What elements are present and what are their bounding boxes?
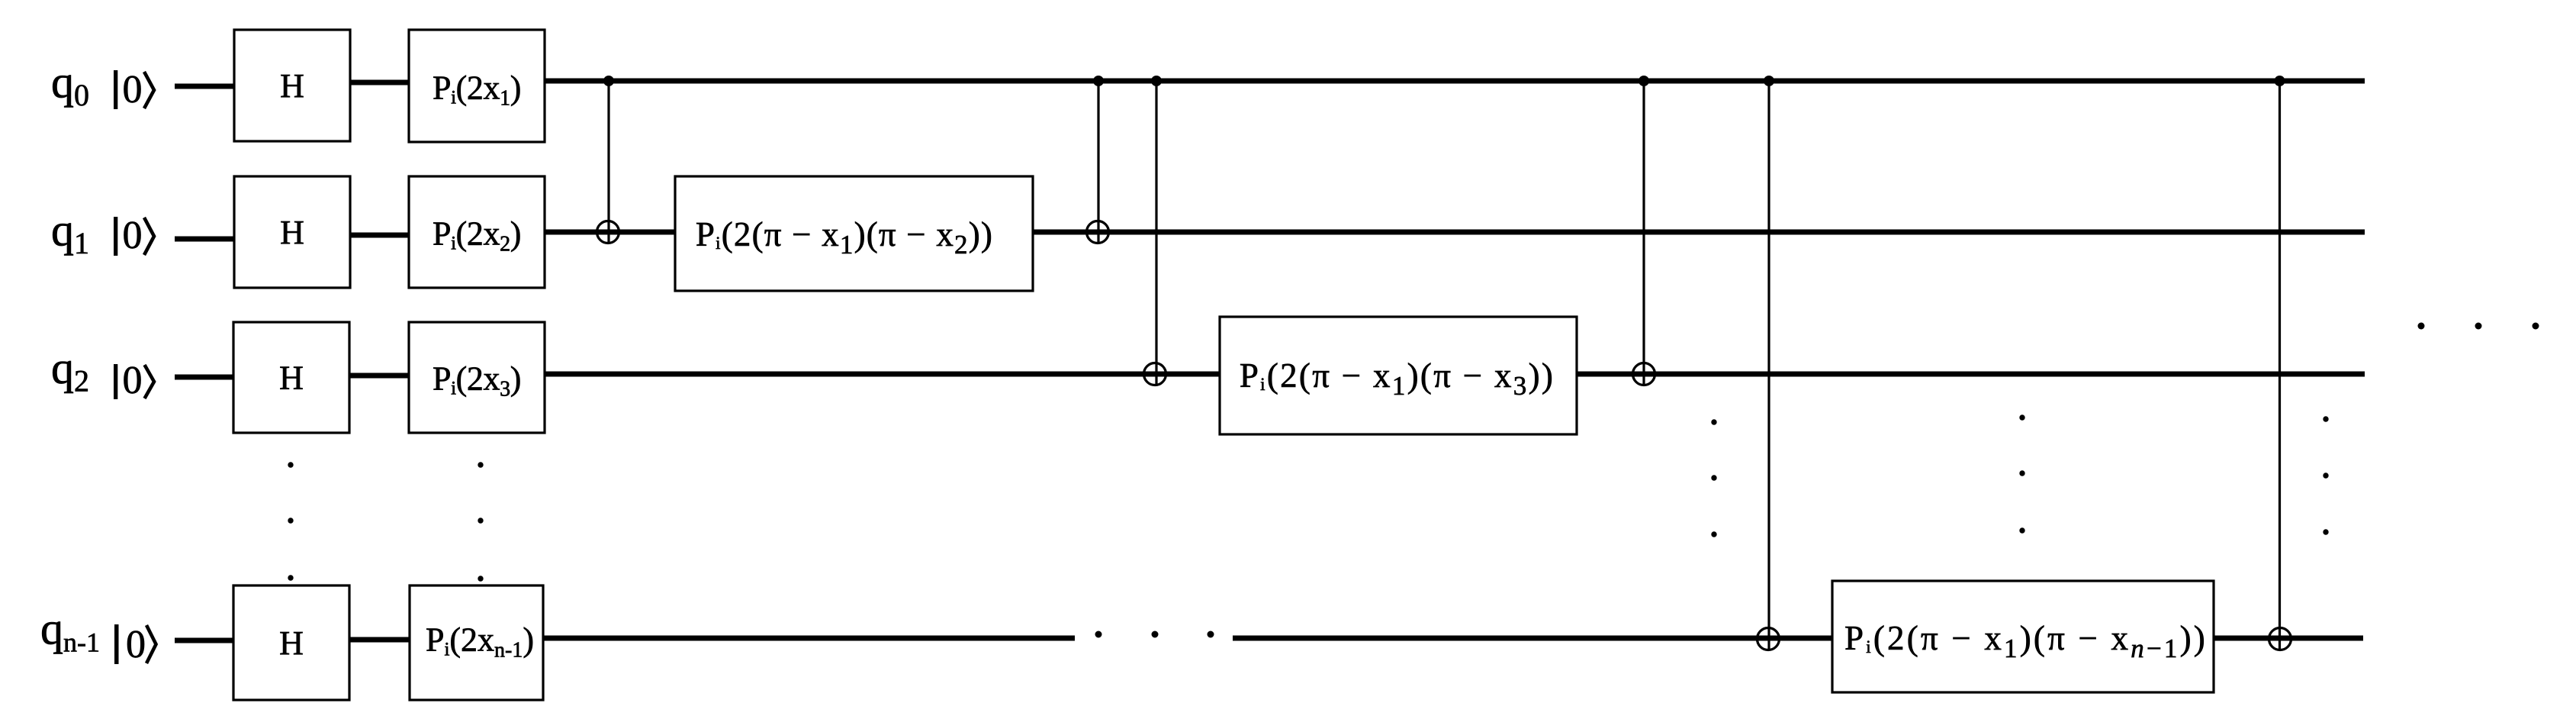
gate P_i(2x_2) q1 <box>409 176 545 288</box>
ket |0> q0 <box>114 68 154 111</box>
CNOT control dot 5 <box>1764 76 1774 86</box>
svg-text:q0: q0 <box>51 57 89 113</box>
svg-text:0: 0 <box>126 623 146 666</box>
CNOT target 3 on q2 <box>1144 363 1166 385</box>
ket |0> q2 <box>114 359 154 402</box>
wire q2 <box>175 374 2365 377</box>
wire qn-1 <box>175 638 2363 640</box>
vertical ellipsis column at x3049 <box>2323 416 2328 534</box>
CNOT control dot 3 <box>1151 76 1162 86</box>
svg-text:H: H <box>279 624 304 662</box>
gate P_i(2(pi-x_1)(pi-x_3)) q2 <box>1220 317 1577 434</box>
CNOT control line 2 (q0 to q1) <box>1097 81 1099 244</box>
svg-text:0: 0 <box>123 214 143 257</box>
vertical ellipsis column under P <box>478 462 483 581</box>
CNOT control dot 6 <box>2275 76 2285 86</box>
ket |0> qn-1 <box>114 623 156 666</box>
wire q1 <box>175 232 2365 239</box>
gate P_i(2x_n-1) qn-1 <box>410 585 543 700</box>
CNOT target 2 on q1 <box>1087 221 1109 244</box>
svg-text:q2: q2 <box>51 343 89 398</box>
vertical ellipsis column at x2651 <box>2019 414 2024 533</box>
CNOT target 5 on qn-1 <box>1758 628 1780 650</box>
wire q0 <box>175 81 2365 86</box>
svg-text:H: H <box>280 67 304 105</box>
CNOT control line 1 (q0 to q1) <box>607 81 609 244</box>
gate P_i(2x_1) q0 <box>409 30 545 142</box>
CNOT control line 5 (q0 to qn-1) <box>1767 81 1770 650</box>
svg-text:H: H <box>280 214 304 251</box>
gate H q0 <box>234 30 350 141</box>
CNOT control dot 4 <box>1639 76 1649 86</box>
svg-text:0: 0 <box>123 359 143 402</box>
ket |0> q1 <box>114 214 154 257</box>
svg-text:qn-1: qn-1 <box>40 604 100 658</box>
CNOT control line 3 (q0 to q2) <box>1155 81 1157 385</box>
gate P_i(2(pi-x_1)(pi-x_2)) q1 <box>675 176 1033 291</box>
vertical ellipsis column at x2247 <box>1711 419 1716 537</box>
CNOT control dot 1 <box>603 76 614 86</box>
horizontal ellipsis right middle <box>2418 323 2539 330</box>
gate P_i(2(pi-x_1)(pi-x_n-1)) qn-1 <box>1832 581 2214 692</box>
CNOT control line 4 (q0 to q2) <box>1642 81 1645 385</box>
svg-text:0: 0 <box>123 68 143 111</box>
svg-text:q1: q1 <box>51 205 89 261</box>
horizontal ellipsis on qn-1 wire <box>1095 631 1214 638</box>
gate P_i(2x_3) q2 <box>409 322 545 433</box>
CNOT control line 6 (q0 to qn-1) <box>2279 81 2281 650</box>
gate H qn-1 <box>233 585 349 700</box>
vertical ellipsis column under H <box>288 462 293 580</box>
CNOT target 1 on q1 <box>597 221 619 244</box>
CNOT control dot 2 <box>1093 76 1104 86</box>
CNOT target 4 on q2 <box>1633 363 1655 385</box>
svg-text:H: H <box>279 360 304 397</box>
CNOT target 6 on qn-1 <box>2269 628 2291 650</box>
gate H q1 <box>234 176 350 288</box>
gate H q2 <box>233 322 349 433</box>
